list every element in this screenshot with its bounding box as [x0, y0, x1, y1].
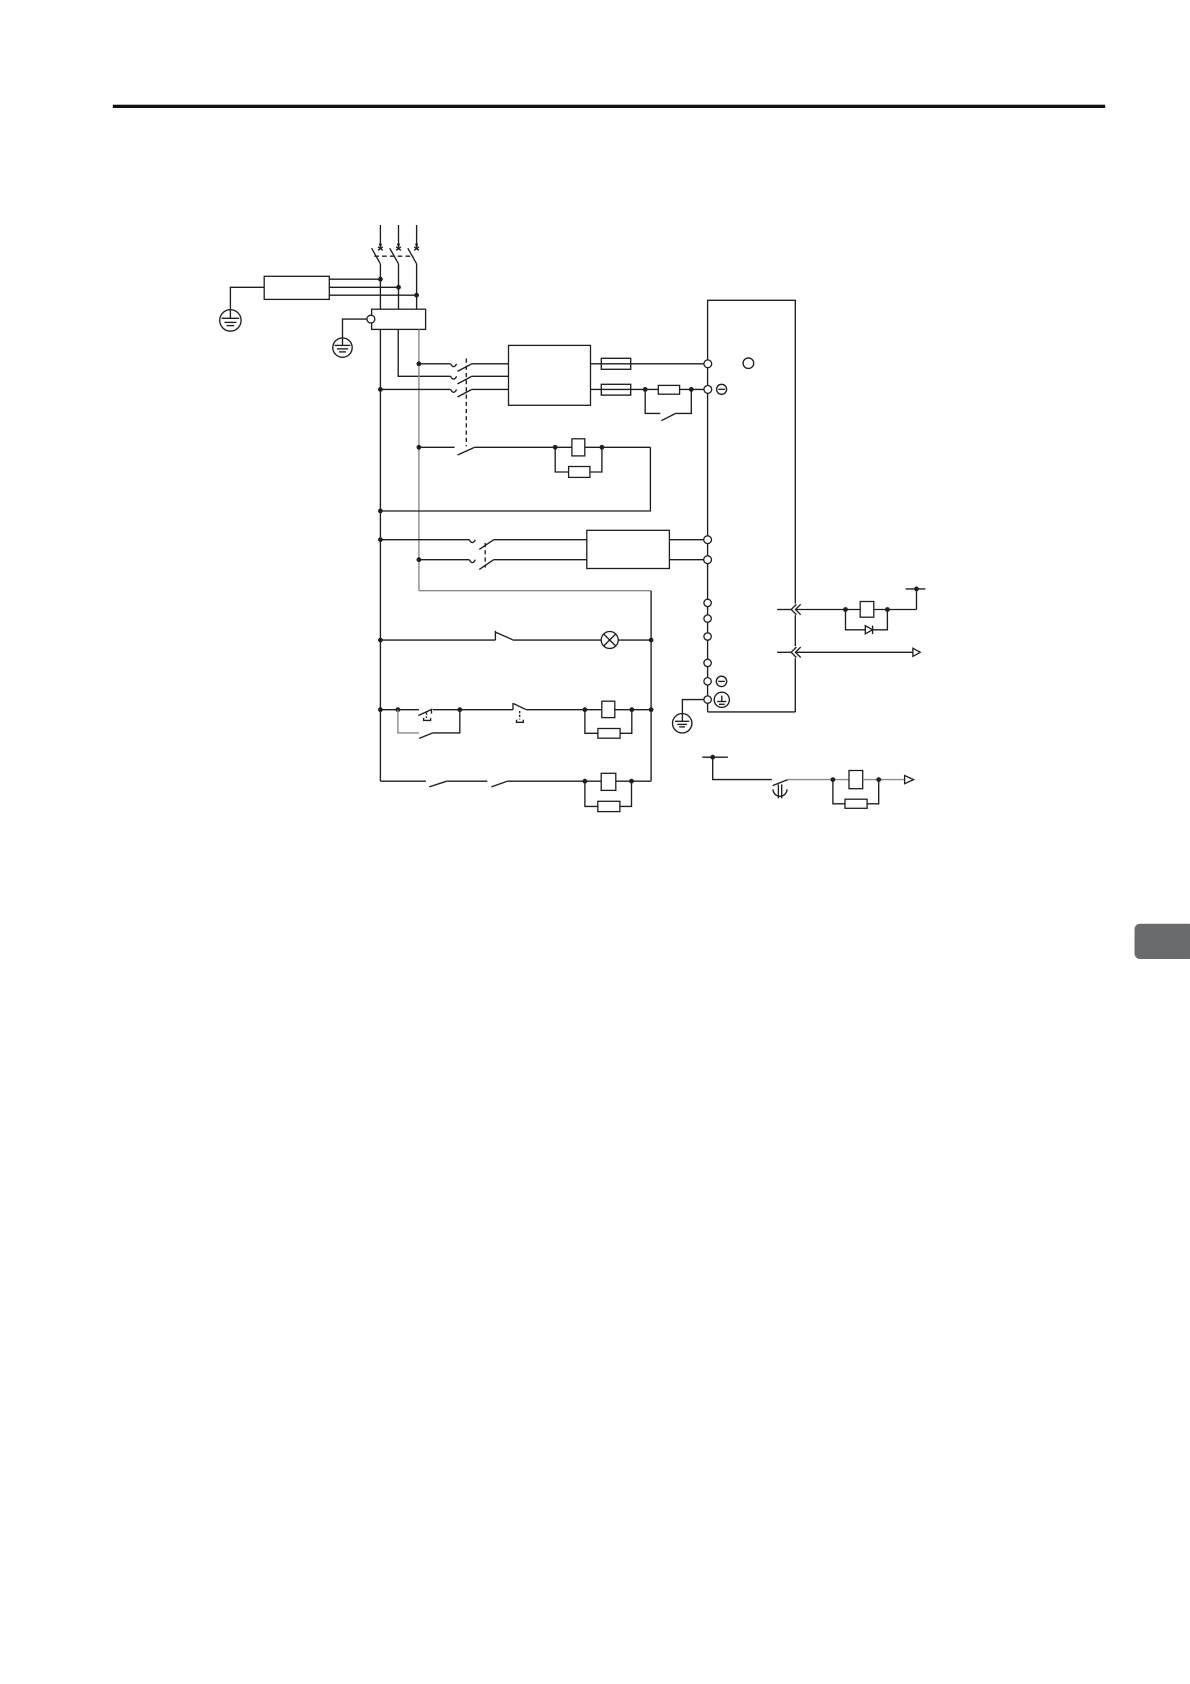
brake power supply box: [587, 530, 670, 568]
terminal B2 on servopack: [704, 556, 712, 564]
minus glyph beside terminal: [716, 676, 726, 686]
wire resistor to terminal: [680, 388, 704, 390]
+24V rail: [906, 587, 926, 610]
junction node L3/contactor row1: [417, 361, 422, 366]
brake supply output wire 1: [669, 539, 703, 541]
phase L2 wire to contactor row 2: [398, 329, 450, 376]
phase L1 long vertical wire: [379, 329, 381, 781]
fuse F2: [601, 384, 630, 395]
junction node coil left: [553, 445, 558, 450]
servopack outline box: [708, 300, 796, 712]
circuit breaker pole 3 blade: [408, 248, 417, 264]
relay coil 2Ry: [601, 773, 616, 790]
junction node coil right: [600, 445, 605, 450]
junction node line2: [396, 285, 401, 290]
fuse F1: [601, 358, 630, 369]
bottom row wire to coil: [507, 780, 601, 782]
contactor row1 wire: [419, 363, 451, 365]
series resistor (inrush): [658, 385, 679, 394]
ground symbol 3 (frame earth): [673, 714, 692, 733]
SCHEMATIC: [220, 225, 926, 812]
output wire 2 segment: [591, 388, 659, 390]
circled earth glyph: [714, 692, 729, 707]
bottom row wire right: [616, 780, 651, 782]
wire pole1 to terminal box: [379, 264, 381, 309]
relay coil 1Ry: [602, 701, 615, 717]
coil row return wire: [380, 447, 650, 511]
side tab: [1135, 924, 1190, 959]
flywheel diode across BK coil: [846, 610, 888, 635]
brake release wire right (gray) with arrow: [863, 776, 914, 784]
junction node bottom coil right: [629, 779, 634, 784]
alarm output wire with arrow: [796, 648, 920, 656]
contactor coil 1MC: [572, 439, 585, 456]
noise filter output wire 1: [329, 278, 380, 280]
junction node relay coil left: [583, 707, 588, 712]
parallel NO contact branch: [398, 710, 460, 739]
surge absorber across coil: [555, 447, 602, 477]
CN connector terminal circles column: [704, 599, 711, 703]
bypass contact branch: [645, 389, 691, 420]
contactor coil row wire from L3: [417, 445, 422, 450]
lamp row wire right: [618, 639, 651, 641]
coil row wire to coil: [474, 446, 572, 448]
coil row switch blade: [458, 448, 475, 456]
output wire 1 to servopack: [591, 363, 704, 365]
bottom row wire mid: [446, 780, 487, 782]
connector chevrons row2: [791, 647, 801, 657]
surge resistor across relay coil: [585, 710, 632, 739]
junction node brake coil left: [831, 777, 836, 782]
brake supply output wire 2: [669, 559, 703, 561]
brake contactor row A wire: [378, 537, 383, 542]
minus polarity glyph: [717, 384, 727, 394]
header rule: [113, 105, 1105, 108]
junction node bypass left: [643, 387, 648, 392]
ground symbol 2 (block earth): [333, 338, 352, 357]
bottom row contact 2: [491, 781, 507, 787]
wire pole2 to terminal box: [398, 264, 400, 309]
brake contactor row B wire: [417, 557, 422, 562]
terminal circle on block left edge: [367, 315, 375, 323]
brake relay coil BK: [860, 602, 874, 618]
junction node L1/contactor row3: [378, 387, 383, 392]
terminal B1 on servopack: [704, 536, 712, 544]
indicator lamp: [601, 632, 618, 649]
bottom row contact 1: [429, 781, 446, 787]
brake contactor contact A: [469, 540, 587, 550]
terminal L2 on servopack: [704, 386, 712, 394]
power input line T with arrow: [414, 225, 419, 250]
main power supply box: [509, 345, 591, 405]
wire pole3 to terminal box: [416, 264, 418, 309]
surge resistor across 2Ry coil: [585, 781, 632, 811]
wire coil to right: [585, 446, 651, 448]
circuit breaker pole 1 blade: [372, 248, 381, 264]
junction node relay row branch: [396, 707, 401, 712]
circuit breaker mechanical link (dashed): [374, 255, 413, 257]
NC pushbutton (stop): [418, 709, 432, 720]
NO pushbutton (start): [513, 703, 526, 722]
noise filter output wire 2: [329, 286, 398, 288]
internal indicator circle: [743, 358, 754, 369]
junction node line1: [378, 277, 383, 282]
junction node lamp/rail: [649, 638, 654, 643]
relay row wire left: [378, 707, 383, 712]
junction node BK coil left: [843, 607, 848, 612]
junction node branch right: [457, 707, 462, 712]
terminal L1 on servopack: [704, 360, 712, 368]
block ground wire: [343, 319, 368, 345]
junction node return/L1: [378, 509, 383, 514]
power input line R with arrow: [378, 225, 383, 250]
noise filter box: [264, 276, 329, 299]
junction node BK coil right: [885, 607, 890, 612]
contactor 1MC mechanical link (dashed): [465, 359, 467, 447]
right control rail vertical: [650, 591, 652, 782]
CN1 brake interlock stub: [777, 609, 791, 611]
brake solenoid coil: [849, 771, 863, 789]
contactor row3 wire: [380, 388, 450, 390]
contactor 1MC contact row3: [451, 389, 509, 397]
connector chevrons row1: [791, 604, 801, 614]
junction node relay coil right: [629, 707, 634, 712]
main circuit terminal block box: [372, 309, 426, 329]
junction node bypass right: [689, 387, 694, 392]
noise filter output wire 3: [329, 294, 416, 296]
relay row wire mid1: [433, 709, 513, 711]
surge resistor across brake coil: [833, 780, 879, 809]
relay row wire right: [615, 709, 651, 711]
noise filter ground wire: [230, 287, 264, 318]
ground symbol 1 (noise filter earth): [220, 310, 241, 331]
contactor 1MC contact row2: [451, 376, 509, 384]
power input line S with arrow: [396, 225, 401, 250]
brake interlock wire: [796, 609, 916, 611]
lamp row wire left: [378, 638, 383, 643]
lamp row contact: [495, 631, 512, 640]
brake contactor mechanical link (dashed): [484, 543, 486, 568]
circuit breaker pole 2 blade: [390, 248, 399, 264]
frame ground wire: [682, 700, 704, 722]
contactor 1MC contact row1: [451, 364, 509, 372]
junction node relay/rail: [649, 707, 654, 712]
CN1 alarm output stub: [777, 651, 791, 653]
bottom row wire from L1: [380, 780, 426, 782]
brake release switch: [773, 780, 788, 799]
junction node line3: [414, 293, 419, 298]
lamp row wire to lamp: [513, 639, 602, 641]
phase L3 vertical wire (gray): [418, 329, 420, 590]
relay row wire mid2: [526, 709, 602, 711]
+24V rail (brake release): [702, 755, 772, 780]
brake release wire mid (gray): [788, 779, 850, 781]
gray feed wire to right rail: [419, 590, 651, 592]
junction node bottom coil left: [583, 779, 588, 784]
brake contactor contact B: [469, 560, 587, 570]
